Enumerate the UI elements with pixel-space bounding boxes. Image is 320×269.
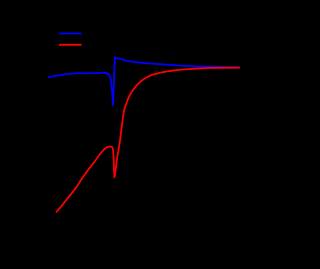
red curve [56, 68, 240, 213]
blue curve [48, 57, 240, 105]
legend blue line sample [59, 33, 82, 35]
legend red line sample [59, 44, 82, 46]
